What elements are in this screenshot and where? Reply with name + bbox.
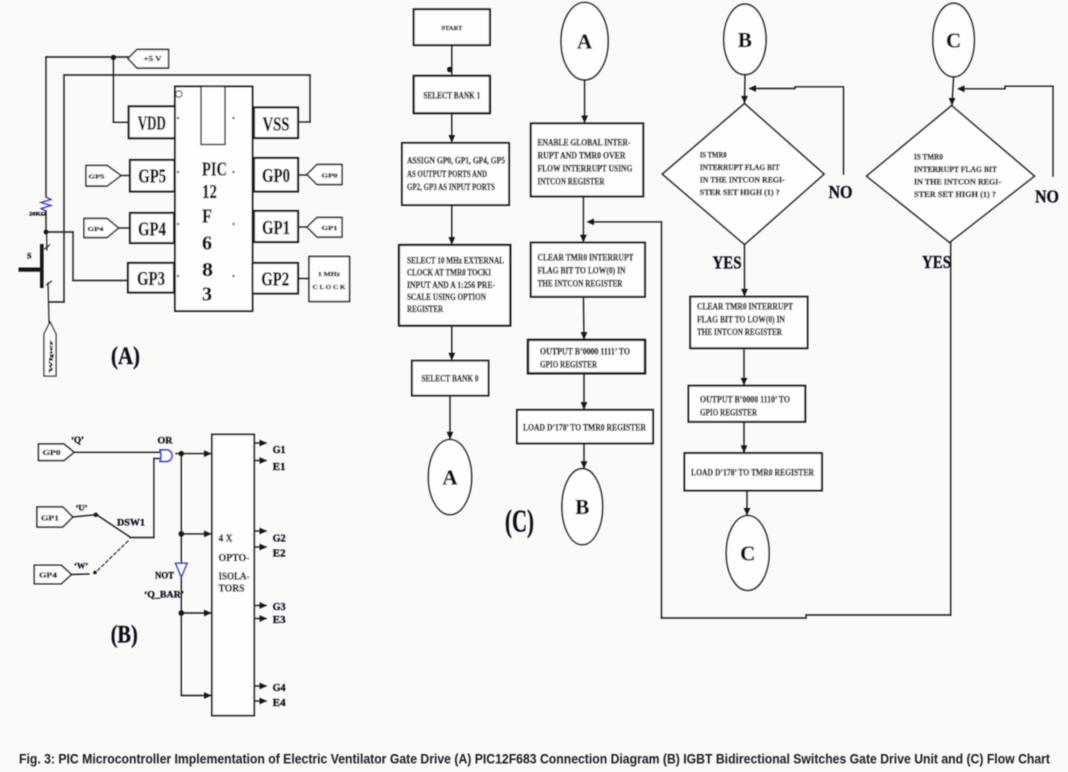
svg-text:E4: E4 [273, 697, 286, 709]
svg-text:1 MHz: 1 MHz [318, 271, 340, 278]
svg-text:GP1: GP1 [41, 515, 60, 523]
svg-text:20KΩ: 20KΩ [29, 212, 47, 218]
svg-text:LOAD D’178’ TO TMR0 REGISTER: LOAD D’178’ TO TMR0 REGISTER [691, 468, 814, 478]
svg-text:THE INTCON REGISTER: THE INTCON REGISTER [538, 279, 623, 289]
svg-text:ISOLA-: ISOLA- [219, 572, 250, 583]
svg-text:GP0: GP0 [262, 166, 290, 187]
svg-text:GP1: GP1 [322, 225, 338, 232]
svg-text:(A): (A) [111, 343, 140, 370]
svg-text:FLAG BIT TO LOW(0) IN: FLAG BIT TO LOW(0) IN [697, 315, 785, 326]
svg-text:OUTPUT B’0000 1111’ TO: OUTPUT B’0000 1111’ TO [540, 348, 630, 358]
svg-text:SCALE USING OPTION: SCALE USING OPTION [407, 293, 486, 303]
svg-text:C L O C K: C L O C K [313, 284, 346, 291]
svg-text:YES: YES [922, 252, 951, 272]
svg-text:G1: G1 [273, 444, 286, 456]
svg-text:(B): (B) [111, 622, 138, 649]
svg-text:‘W’: ‘W’ [74, 561, 88, 571]
svg-text:6: 6 [202, 233, 212, 254]
svg-text:VSS: VSS [263, 115, 290, 136]
svg-text:STER SET HIGH (1) ?: STER SET HIGH (1) ? [914, 190, 996, 199]
svg-text:DSW1: DSW1 [117, 518, 146, 528]
svg-text:OUTPUT B’0000 1110’ TO: OUTPUT B’0000 1110’ TO [700, 396, 790, 406]
svg-text:IS TMR0: IS TMR0 [914, 153, 943, 162]
svg-text:(C): (C) [505, 503, 534, 539]
svg-text:FLAG BIT TO LOW(0) IN: FLAG BIT TO LOW(0) IN [538, 266, 626, 277]
svg-text:NO: NO [829, 182, 853, 202]
svg-text:GPIO REGISTER: GPIO REGISTER [540, 361, 597, 371]
svg-text:E2: E2 [273, 548, 286, 560]
svg-text:SELECT BANK 0: SELECT BANK 0 [422, 374, 479, 384]
svg-text:E3: E3 [273, 614, 286, 626]
svg-text:GP4: GP4 [39, 572, 58, 580]
svg-text:Wiper: Wiper [49, 339, 55, 373]
svg-text:CLEAR TMR0 INTERRUPT: CLEAR TMR0 INTERRUPT [538, 254, 635, 264]
svg-text:E1: E1 [273, 461, 286, 473]
svg-text:INPUT AND A 1:256 PRE-: INPUT AND A 1:256 PRE- [407, 281, 495, 291]
svg-text:S: S [27, 252, 32, 261]
svg-text:TORS: TORS [219, 584, 245, 595]
svg-text:STER SET HIGH (1) ?: STER SET HIGH (1) ? [700, 188, 780, 197]
svg-text:THE INTCON REGISTER: THE INTCON REGISTER [697, 328, 782, 338]
svg-text:A: A [442, 466, 458, 490]
svg-text:IN THE INTCON REGI-: IN THE INTCON REGI- [700, 175, 785, 184]
svg-text:OPTO-: OPTO- [219, 553, 250, 564]
svg-text:GPIO REGISTER: GPIO REGISTER [700, 409, 757, 419]
svg-text:OR: OR [158, 437, 173, 447]
svg-text:ASSIGN GP0, GP1, GP4, GP5: ASSIGN GP0, GP1, GP4, GP5 [407, 157, 505, 167]
svg-text:IS TMR0: IS TMR0 [700, 151, 727, 160]
svg-text:SELECT 10 MHz EXTERNAL: SELECT 10 MHz EXTERNAL [407, 257, 504, 267]
svg-text:CLEAR TMR0 INTERRUPT: CLEAR TMR0 INTERRUPT [697, 303, 794, 313]
svg-text:LOAD D’178’ TO TMR0 REGISTER: LOAD D’178’ TO TMR0 REGISTER [523, 424, 646, 434]
svg-text:INTCON REGISTER: INTCON REGISTER [538, 178, 605, 188]
svg-text:+5 V: +5 V [144, 55, 162, 63]
svg-text:SELECT BANK 1: SELECT BANK 1 [423, 91, 480, 101]
svg-text:CLOCK AT TMR0 TOCKI: CLOCK AT TMR0 TOCKI [407, 269, 491, 279]
svg-text:GP3: GP3 [137, 269, 165, 290]
svg-text:GP2: GP2 [261, 270, 289, 291]
svg-text:8: 8 [202, 260, 213, 281]
svg-text:G4: G4 [273, 682, 286, 694]
svg-text:RUPT AND TMR0 OVER: RUPT AND TMR0 OVER [538, 152, 626, 162]
svg-text:GP4: GP4 [88, 226, 105, 233]
svg-text:GP1: GP1 [262, 218, 290, 239]
svg-text:REGISTER: REGISTER [407, 305, 443, 315]
svg-text:AS OUTPUT PORTS AND: AS OUTPUT PORTS AND [407, 170, 487, 180]
svg-text:F: F [202, 207, 212, 228]
svg-text:GP5: GP5 [89, 174, 106, 181]
svg-text:INTERRUPT FLAG BIT: INTERRUPT FLAG BIT [914, 165, 998, 174]
svg-text:IN THE INTCON REGI-: IN THE INTCON REGI- [914, 177, 1001, 186]
svg-text:GP5: GP5 [138, 167, 166, 188]
svg-text:GP2, GP3 AS INPUT PORTS: GP2, GP3 AS INPUT PORTS [407, 183, 495, 193]
svg-text:GP0: GP0 [322, 173, 338, 180]
svg-text:ENABLE GLOBAL INTER-: ENABLE GLOBAL INTER- [538, 139, 631, 149]
svg-text:VDD: VDD [138, 113, 166, 134]
svg-text:4 X: 4 X [219, 534, 233, 545]
svg-text:B: B [738, 28, 752, 52]
svg-text:NO: NO [1035, 187, 1059, 207]
svg-text:12: 12 [202, 182, 217, 203]
svg-text:YES: YES [713, 253, 742, 273]
svg-text:FLOW INTERRUPT USING: FLOW INTERRUPT USING [538, 165, 633, 175]
svg-text:GP0: GP0 [43, 449, 62, 457]
svg-text:G2: G2 [273, 533, 286, 545]
svg-text:G3: G3 [273, 601, 286, 613]
svg-text:A: A [577, 30, 593, 54]
svg-text:B: B [575, 495, 589, 519]
svg-text:C: C [740, 542, 755, 566]
svg-text:3: 3 [202, 285, 212, 306]
svg-text:Fig. 3: PIC Microcontroller I: Fig. 3: PIC Microcontroller Implementati… [19, 752, 1050, 767]
svg-text:‘Q_BAR’: ‘Q_BAR’ [144, 590, 184, 601]
svg-text:‘Q’: ‘Q’ [71, 435, 84, 445]
svg-text:PIC: PIC [202, 160, 227, 181]
svg-text:INTERRUPT FLAG BIT: INTERRUPT FLAG BIT [700, 163, 781, 172]
svg-text:NOT: NOT [155, 572, 175, 582]
svg-text:START: START [441, 25, 463, 32]
svg-text:C: C [946, 29, 961, 53]
svg-text:GP4: GP4 [138, 219, 166, 240]
svg-text:‘U’: ‘U’ [76, 503, 88, 513]
